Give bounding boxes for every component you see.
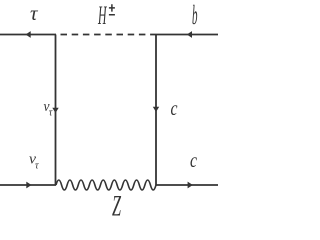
svg-text:τ: τ xyxy=(30,1,39,25)
arrow on bottom c line (points right) xyxy=(188,182,193,189)
svg-text:b: b xyxy=(192,0,198,30)
svg-text:Z: Z xyxy=(112,190,121,219)
svg-text:τ: τ xyxy=(35,161,39,172)
svg-text:c: c xyxy=(190,148,198,172)
wire tau incoming top-left xyxy=(0,34,56,36)
wire b outgoing top-right xyxy=(156,34,218,36)
label plus-minus superscript of H xyxy=(109,4,115,15)
svg-text:c: c xyxy=(171,96,179,120)
wire c outgoing bottom-right xyxy=(156,184,218,186)
svg-text:τ: τ xyxy=(49,108,53,119)
boson Z wavy propagator bottom xyxy=(56,180,156,190)
arrow on b line (points left) xyxy=(187,31,192,38)
arrow on tau line (points left) xyxy=(26,31,31,38)
arrow on left nu_tau vertical (points down) xyxy=(52,108,58,113)
wire c right vertical propagator xyxy=(155,35,157,186)
arrow on bottom nu_tau line (points right) xyxy=(26,182,31,189)
arrow on right c vertical (points down) xyxy=(153,107,159,112)
svg-text:H: H xyxy=(98,1,108,30)
wire H+- dashed propagator top xyxy=(56,34,157,36)
wire nu_tau left vertical propagator xyxy=(55,35,57,186)
wire nu_tau incoming bottom-left xyxy=(0,184,56,186)
